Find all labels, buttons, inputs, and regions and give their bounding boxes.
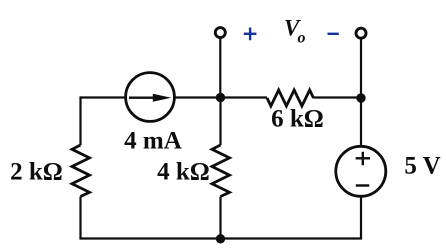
svg-text:o: o — [298, 30, 306, 47]
voltage source V1 circle — [336, 146, 386, 196]
wire 6k to node B — [314, 96, 362, 98]
wire current source to node A — [174, 96, 220, 98]
svg-text:5 V: 5 V — [404, 153, 440, 180]
node B junction dot — [356, 93, 365, 102]
svg-text:2 kΩ: 2 kΩ — [10, 159, 63, 186]
wire left vertical lower — [79, 197, 81, 239]
label 6 kOhm — [271, 106, 324, 133]
wire 5V source to bottom — [360, 196, 362, 238]
wire node A down to 4k — [219, 98, 221, 146]
svg-text:4 kΩ: 4 kΩ — [157, 159, 210, 186]
label minus Vo — [328, 33, 339, 35]
wire left terminal stem — [219, 39, 221, 99]
resistor R 4k zigzag — [212, 145, 230, 197]
label 4 kOhm — [157, 159, 210, 186]
label 2 kOhm — [10, 159, 63, 186]
resistor R 6k zigzag — [267, 90, 314, 106]
voltage source plus sign — [356, 152, 371, 165]
node bottom junction dot — [216, 234, 225, 243]
label plus Vo — [244, 28, 257, 41]
wire bottom horizontal — [79, 237, 362, 239]
node A junction dot — [216, 93, 225, 102]
wire node B to 5V source — [360, 98, 362, 146]
svg-text:6 kΩ: 6 kΩ — [271, 106, 324, 133]
label 4 mA — [124, 128, 182, 155]
wire 4k to bottom node — [219, 197, 221, 240]
terminal left open circle — [215, 28, 225, 38]
label 5 V — [404, 153, 440, 180]
wire left vertical upper — [79, 96, 81, 145]
current source I1 circle — [126, 73, 175, 122]
label Vo text — [284, 16, 306, 47]
wire right terminal stem — [360, 39, 362, 99]
resistor R 2k zigzag — [72, 145, 90, 197]
voltage source minus sign — [356, 184, 370, 186]
wire top-left horizontal — [81, 96, 126, 98]
svg-text:4 mA: 4 mA — [124, 128, 182, 155]
current source arrow — [129, 94, 171, 102]
terminal right open circle — [356, 28, 366, 38]
wire node A to 6k — [221, 96, 268, 98]
